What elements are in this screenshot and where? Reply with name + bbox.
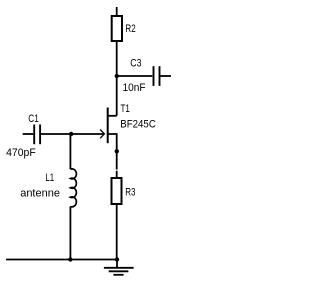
svg-text:T1: T1 [121,103,130,116]
svg-text:BF245C: BF245C [120,119,156,131]
svg-text:antenne: antenne [20,187,60,199]
svg-text:R3: R3 [125,186,135,199]
svg-text:R2: R2 [125,23,135,36]
svg-text:470pF: 470pF [6,147,36,159]
svg-text:10nF: 10nF [123,82,147,94]
svg-text:L1: L1 [45,172,54,185]
svg-text:C1: C1 [28,113,39,125]
svg-text:C3: C3 [130,58,142,70]
